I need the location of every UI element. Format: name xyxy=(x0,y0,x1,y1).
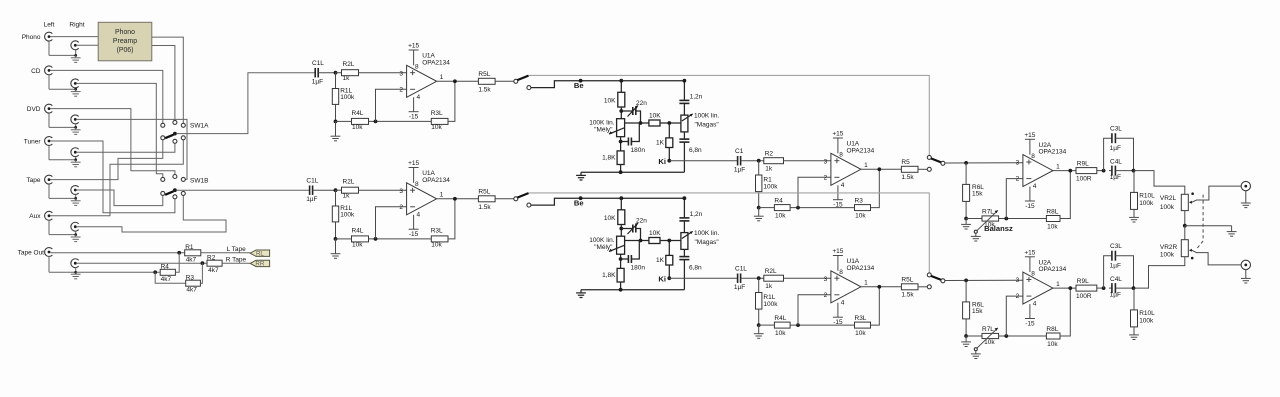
svg-text:-15: -15 xyxy=(833,319,843,326)
ground R6L upper (left ch) xyxy=(965,219,967,225)
wire Tape R to SW1B xyxy=(77,190,163,206)
svg-text:1.5k: 1.5k xyxy=(901,174,914,181)
ground tone lower (right ch) xyxy=(580,290,582,293)
svg-text:Be: Be xyxy=(574,198,584,207)
svg-text:6,8n: 6,8n xyxy=(689,265,702,272)
svg-text:Phono: Phono xyxy=(115,29,135,36)
balance pot R7L upper (left ch) xyxy=(966,218,982,220)
svg-text:1µF: 1µF xyxy=(1110,174,1121,181)
selector switch SW1B xyxy=(161,177,165,181)
resistor R10L 100k lower (right ch) xyxy=(1133,288,1135,310)
capacitor C3L 1uF lower (right ch) xyxy=(1104,256,1112,288)
resistor R9L 100R lower (right ch) xyxy=(1076,285,1097,291)
wire CD L to SW1A xyxy=(51,70,163,123)
svg-text:DVD: DVD xyxy=(27,106,41,113)
wire to Be node upper (left ch) xyxy=(531,81,686,88)
resistor R5L upper (left ch) xyxy=(478,78,495,84)
svg-text:VR2R: VR2R xyxy=(1160,244,1178,251)
svg-text:1,2n: 1,2n xyxy=(690,94,703,101)
svg-text:R4L: R4L xyxy=(352,227,364,234)
svg-text:R2L: R2L xyxy=(343,179,355,186)
svg-text:C1L: C1L xyxy=(306,178,318,185)
svg-text:10k: 10k xyxy=(352,241,363,248)
phono preamp box P06 xyxy=(98,22,152,61)
output node U2A upper (left ch) xyxy=(1053,170,1076,172)
svg-text:4k7: 4k7 xyxy=(186,256,197,263)
svg-text:1µF: 1µF xyxy=(1110,262,1121,269)
svg-text:1µF: 1µF xyxy=(312,79,323,86)
capacitor 180n lower (right ch) xyxy=(620,254,622,268)
wire preamp out 1 to SW1A contact xyxy=(152,37,184,123)
resistor R2L upper (left ch) xyxy=(342,70,359,76)
svg-text:1: 1 xyxy=(1056,281,1060,288)
svg-text:"Magas": "Magas" xyxy=(695,122,720,129)
svg-text:4: 4 xyxy=(1033,183,1037,190)
output node lower (right ch) xyxy=(437,198,479,200)
svg-text:6,8n: 6,8n xyxy=(689,147,702,154)
wire switch2 to U2A upper (left ch) xyxy=(945,162,1023,164)
selector switch SW1A xyxy=(161,123,165,127)
svg-text:-15: -15 xyxy=(1025,203,1035,210)
RCA jack Aux right xyxy=(71,222,79,231)
ground Aux inputs xyxy=(48,220,50,234)
svg-text:1.5k: 1.5k xyxy=(901,292,914,299)
ground R7L wiper lower (right ch) xyxy=(975,351,977,354)
wire Phono L to preamp xyxy=(51,36,99,38)
svg-text:OPA2134: OPA2134 xyxy=(1039,266,1067,273)
svg-text:100K lin.: 100K lin. xyxy=(694,113,719,120)
svg-text:R2L: R2L xyxy=(765,268,777,275)
ground R1L lower (right ch) xyxy=(335,239,337,254)
svg-text:2: 2 xyxy=(824,174,828,181)
svg-text:1K: 1K xyxy=(656,140,665,147)
svg-text:R5L: R5L xyxy=(478,189,490,196)
potentiometer 100K lin Magas upper (left ch) xyxy=(681,115,688,132)
gang dot VR2R xyxy=(1191,257,1194,260)
RCA jack Tape right xyxy=(71,186,79,195)
svg-text:4: 4 xyxy=(841,299,845,306)
node Ki upper (left ch) xyxy=(667,159,671,163)
svg-text:Balansz: Balansz xyxy=(984,224,1013,233)
svg-text:10k: 10k xyxy=(855,213,866,220)
svg-text:C1L: C1L xyxy=(735,265,747,272)
svg-text:+15: +15 xyxy=(408,43,419,50)
op-amp U1A stage2 upper (left ch) xyxy=(831,153,861,185)
svg-text:4k7: 4k7 xyxy=(161,276,172,283)
feedback node stage2 lower (right ch) xyxy=(790,324,854,326)
svg-text:+15: +15 xyxy=(1024,132,1035,139)
ground R6L lower (right ch) xyxy=(965,336,967,342)
svg-text:10k: 10k xyxy=(431,241,442,248)
feedback node upper (left ch) xyxy=(369,120,432,122)
svg-text:10k: 10k xyxy=(431,124,442,131)
svg-text:180n: 180n xyxy=(631,265,646,272)
svg-text:1k: 1k xyxy=(343,75,351,82)
wire DVD R to SW1B xyxy=(77,119,187,179)
svg-text:1k: 1k xyxy=(343,192,351,199)
svg-text:1.5k: 1.5k xyxy=(478,86,491,93)
svg-text:8: 8 xyxy=(1031,153,1035,160)
svg-text:1µF: 1µF xyxy=(734,284,745,291)
capacitor C4L 1uF upper (left ch) xyxy=(1109,170,1112,172)
svg-text:C1: C1 xyxy=(735,148,744,155)
svg-text:L Tape: L Tape xyxy=(227,246,247,253)
svg-text:SW1B: SW1B xyxy=(190,177,208,184)
resistor 1K upper (left ch) xyxy=(668,123,670,138)
potentiometer 100K lin Magas lower (right ch) xyxy=(681,233,688,250)
svg-text:100k: 100k xyxy=(1139,200,1154,207)
resistor R4 10k upper (left ch) xyxy=(759,207,775,209)
capacitor 180n upper (left ch) xyxy=(620,137,622,151)
resistor R1L 100k lower (right ch) xyxy=(758,278,760,292)
resistor R3L lower (right ch) xyxy=(431,236,448,242)
svg-text:1,2n: 1,2n xyxy=(690,211,703,218)
svg-text:CD: CD xyxy=(31,68,41,75)
svg-text:Phono: Phono xyxy=(22,34,41,41)
svg-text:10k: 10k xyxy=(855,330,866,337)
svg-text:R4L: R4L xyxy=(774,315,786,322)
svg-text:SW1A: SW1A xyxy=(190,123,209,130)
svg-text:(P06): (P06) xyxy=(117,47,134,54)
svg-text:R5L: R5L xyxy=(478,71,490,78)
wiper rail tone upper (left ch) xyxy=(625,122,649,124)
svg-text:Tape: Tape xyxy=(26,177,40,184)
svg-text:3: 3 xyxy=(1016,160,1020,167)
svg-text:100k: 100k xyxy=(1139,318,1154,325)
svg-text:1: 1 xyxy=(440,192,444,199)
svg-text:3: 3 xyxy=(824,276,828,283)
svg-text:Preamp: Preamp xyxy=(113,38,137,45)
svg-text:3: 3 xyxy=(399,70,403,77)
tone defeat switch pole upper (left ch) xyxy=(514,79,518,83)
node Ki lower (right ch) xyxy=(667,276,671,280)
svg-text:4: 4 xyxy=(417,211,421,218)
feedback node stage2 upper (left ch) xyxy=(790,207,854,209)
svg-text:100K lin.: 100K lin. xyxy=(694,230,719,237)
wire SW1B pole to C1L lower xyxy=(177,189,310,191)
tag RL xyxy=(250,250,269,256)
wire Aux L to SW1A xyxy=(51,140,184,216)
ground R1L upper (left ch) xyxy=(335,121,337,136)
svg-text:OPA2134: OPA2134 xyxy=(422,177,450,184)
resistor R2 1k upper (left ch) xyxy=(764,158,784,164)
node Be upper (left ch) xyxy=(579,79,583,83)
resistor R3L 10k lower (right ch) xyxy=(855,322,871,328)
wiper rail tone lower (right ch) xyxy=(625,240,649,242)
ground CD inputs xyxy=(48,75,50,89)
resistor 1,8K lower (right ch) xyxy=(617,268,624,282)
svg-text:C4L: C4L xyxy=(1110,276,1122,283)
wire VR2L bottom to ground xyxy=(1184,211,1186,226)
svg-text:1,8K: 1,8K xyxy=(602,272,616,279)
resistor R5L lower (right ch) xyxy=(478,196,495,202)
capacitor 22n lower (right ch) xyxy=(621,228,633,230)
svg-text:C4L: C4L xyxy=(1110,158,1122,165)
svg-text:Ki: Ki xyxy=(658,274,666,283)
svg-text:100k: 100k xyxy=(340,94,355,101)
svg-text:100R: 100R xyxy=(1076,175,1092,182)
wire Tuner L to SW1B xyxy=(51,141,175,213)
resistor R8L 10k upper (left ch) xyxy=(1046,216,1060,222)
wire Aux R to SW1B xyxy=(77,195,226,232)
svg-text:4k7: 4k7 xyxy=(186,287,197,294)
svg-text:1k: 1k xyxy=(765,165,773,172)
svg-text:1: 1 xyxy=(864,162,868,169)
resistor R9L 100R upper (left ch) xyxy=(1076,168,1097,174)
balance pot R7L lower (right ch) xyxy=(966,335,982,337)
svg-text:R5L: R5L xyxy=(901,277,913,284)
RCA jack Phono right xyxy=(71,41,79,50)
svg-text:1µF: 1µF xyxy=(306,196,317,203)
capacitor 6,8n upper (left ch) xyxy=(683,132,685,139)
op-amp U1A buffer upper (left ch) xyxy=(407,65,437,97)
node Be lower (right ch) xyxy=(579,196,583,200)
resistor 10K tone lower (right ch) xyxy=(620,198,622,210)
svg-text:2: 2 xyxy=(1016,176,1020,183)
svg-text:1: 1 xyxy=(1056,163,1060,170)
op-amp U2A upper (left ch) xyxy=(1023,155,1053,187)
resistor 10K series lower (right ch) xyxy=(649,238,660,244)
svg-text:2: 2 xyxy=(399,204,403,211)
svg-text:RR: RR xyxy=(255,261,264,268)
svg-text:10k: 10k xyxy=(1047,341,1058,348)
svg-text:8: 8 xyxy=(839,269,843,276)
svg-text:+15: +15 xyxy=(832,248,843,255)
ground R1L lower (right ch) xyxy=(758,325,760,334)
svg-text:1: 1 xyxy=(864,280,868,287)
resistor R4L lower (right ch) xyxy=(352,236,369,242)
svg-text:8: 8 xyxy=(1031,271,1035,278)
op-amp U2A lower (right ch) xyxy=(1023,272,1053,304)
capacitor 6,8n lower (right ch) xyxy=(683,249,685,256)
svg-text:100R: 100R xyxy=(1076,293,1092,300)
svg-text:R3L: R3L xyxy=(431,110,443,117)
svg-text:"Magas": "Magas" xyxy=(695,239,720,246)
svg-text:10K: 10K xyxy=(604,215,616,222)
op-amp U1A stage2 lower (right ch) xyxy=(831,271,861,303)
svg-text:R2: R2 xyxy=(765,151,774,158)
svg-text:R10L: R10L xyxy=(1139,310,1155,317)
svg-text:4k7: 4k7 xyxy=(208,267,219,274)
svg-text:OPA2134: OPA2134 xyxy=(422,59,450,66)
svg-text:OPA2134: OPA2134 xyxy=(847,265,875,272)
wire Tuner R to SW1A xyxy=(77,143,175,152)
svg-text:R3: R3 xyxy=(186,274,195,281)
ground R7L wiper upper (left ch) xyxy=(975,233,977,236)
resistor 10K series upper (left ch) xyxy=(649,120,660,126)
svg-text:4: 4 xyxy=(417,94,421,101)
svg-text:4: 4 xyxy=(841,182,845,189)
wire Tape Out R line xyxy=(77,262,207,264)
capacitor C1L 1uF lower (right ch) xyxy=(737,273,739,283)
resistor R3 10k upper (left ch) xyxy=(855,205,871,211)
ground Phono inputs xyxy=(48,41,50,55)
ground R10L lower (right ch) xyxy=(1133,327,1135,335)
svg-text:10K: 10K xyxy=(604,98,616,105)
capacitor C4L 1uF lower (right ch) xyxy=(1109,287,1112,289)
wire DVD L to SW1B xyxy=(51,109,175,175)
resistor R4L upper (left ch) xyxy=(352,118,369,124)
RCA jack CD left xyxy=(45,66,53,75)
ground rail tone upper (left ch) xyxy=(581,171,684,173)
ground output right xyxy=(1245,269,1247,278)
resistor 10K tone upper (left ch) xyxy=(620,81,622,93)
tone defeat switch 2 upper (left ch) xyxy=(927,155,931,159)
RCA jack Tape left xyxy=(45,175,53,184)
RCA jack Phono left xyxy=(45,32,53,41)
svg-text:10k: 10k xyxy=(352,124,363,131)
svg-text:10k: 10k xyxy=(775,213,786,220)
svg-text:R10L: R10L xyxy=(1139,193,1155,200)
svg-text:Right: Right xyxy=(69,21,84,28)
svg-text:R8L: R8L xyxy=(1046,326,1058,333)
svg-text:Be: Be xyxy=(574,81,584,90)
svg-text:R1: R1 xyxy=(763,176,772,183)
svg-text:10k: 10k xyxy=(775,330,786,337)
svg-text:R1: R1 xyxy=(185,244,194,251)
wire preamp out 2 to SW1A contact xyxy=(152,46,175,121)
resistor R4 4k7 xyxy=(160,269,175,275)
resistor R3 4k7 xyxy=(186,280,201,286)
RCA jack CD right xyxy=(71,79,79,88)
wire CD R to SW1B xyxy=(77,83,163,177)
svg-text:10K: 10K xyxy=(649,113,661,120)
svg-text:8: 8 xyxy=(415,64,419,71)
svg-text:100k: 100k xyxy=(340,212,355,219)
tag RR xyxy=(250,260,269,266)
svg-text:R2: R2 xyxy=(207,254,216,261)
ground R1 upper (left ch) xyxy=(758,208,760,217)
svg-text:100k: 100k xyxy=(1160,204,1175,211)
svg-text:2: 2 xyxy=(399,86,403,93)
svg-text:1µF: 1µF xyxy=(734,167,745,174)
RCA jack DVD left xyxy=(45,104,53,113)
svg-text:+15: +15 xyxy=(832,131,843,138)
svg-text:R8L: R8L xyxy=(1046,208,1058,215)
wire Tape L to SW1A xyxy=(51,140,163,180)
RCA jack Tuner right xyxy=(71,148,79,157)
wire to Be node lower (right ch) xyxy=(531,198,686,205)
svg-text:15k: 15k xyxy=(972,191,983,198)
svg-text:1µF: 1µF xyxy=(1110,145,1121,152)
svg-text:3: 3 xyxy=(824,158,828,165)
svg-text:22n: 22n xyxy=(636,100,647,107)
svg-text:R4: R4 xyxy=(774,197,783,204)
output node U2A lower (right ch) xyxy=(1053,287,1076,289)
svg-text:VR2L: VR2L xyxy=(1160,195,1177,202)
resistor R1L upper (left ch) xyxy=(335,73,337,89)
svg-text:1.5k: 1.5k xyxy=(478,204,491,211)
potentiometer 100K lin Mely lower (right ch) xyxy=(617,236,625,254)
tone defeat switch 2 lower (right ch) xyxy=(927,273,931,277)
svg-text:RL: RL xyxy=(256,250,264,257)
resistor R6L 15k upper (left ch) xyxy=(965,163,967,185)
wire R2 to tag R Tape xyxy=(222,262,250,264)
svg-text:C1L: C1L xyxy=(312,60,324,67)
svg-text:Aux: Aux xyxy=(29,213,41,220)
ground volume pots xyxy=(1231,226,1233,232)
svg-text:1µF: 1µF xyxy=(1110,292,1121,299)
resistor R5L 1.5k lower (right ch) xyxy=(901,284,918,290)
svg-text:Ki: Ki xyxy=(658,157,666,166)
svg-text:R2L: R2L xyxy=(343,61,355,68)
svg-text:8: 8 xyxy=(415,181,419,188)
svg-text:R4L: R4L xyxy=(352,110,364,117)
svg-text:Tape Out: Tape Out xyxy=(18,249,45,256)
svg-text:R9L: R9L xyxy=(1077,160,1089,167)
capacitor C1 1uF upper (left ch) xyxy=(737,156,739,166)
capacitor 1,2n lower (right ch) xyxy=(683,198,685,218)
svg-text:1k: 1k xyxy=(765,283,773,290)
RCA jack DVD right xyxy=(71,115,79,124)
svg-text:R3L: R3L xyxy=(431,227,443,234)
volume pot VR2R 100k xyxy=(1184,226,1186,240)
svg-text:10k: 10k xyxy=(1047,224,1058,231)
ground rail tone lower (right ch) xyxy=(581,289,684,291)
resistor R5 1.5k upper (left ch) xyxy=(901,166,918,172)
svg-text:R9L: R9L xyxy=(1077,278,1089,285)
svg-text:-15: -15 xyxy=(833,202,843,209)
wire Ki to C1 upper (left ch) xyxy=(669,160,737,162)
capacitor C1L upper (left ch) xyxy=(314,68,316,78)
svg-text:100K lin.: 100K lin. xyxy=(589,120,614,127)
svg-text:R1L: R1L xyxy=(763,294,775,301)
svg-text:+15: +15 xyxy=(1024,250,1035,257)
ground DVD inputs xyxy=(48,113,50,127)
svg-text:-15: -15 xyxy=(409,231,419,238)
ground Tuner inputs xyxy=(48,146,50,160)
svg-text:2: 2 xyxy=(824,292,828,299)
resistor R1L lower (right ch) xyxy=(335,190,337,206)
svg-text:15k: 15k xyxy=(972,308,983,315)
svg-text:22n: 22n xyxy=(636,218,647,225)
resistor R4L 10k lower (right ch) xyxy=(759,324,775,326)
tone defeat switch pole lower (right ch) xyxy=(514,197,518,201)
svg-text:Left: Left xyxy=(44,21,55,28)
svg-text:R7L: R7L xyxy=(982,326,994,333)
gang dashed link xyxy=(1202,195,1204,241)
ground Tape inputs xyxy=(48,184,50,198)
volume pot VR2L 100k xyxy=(1181,194,1188,210)
svg-text:R4: R4 xyxy=(161,264,170,271)
svg-text:100k: 100k xyxy=(763,301,778,308)
svg-text:10K: 10K xyxy=(649,230,661,237)
resistor R3L upper (left ch) xyxy=(431,118,448,124)
op-amp U1A buffer lower (right ch) xyxy=(407,183,437,215)
capacitor 1,2n upper (left ch) xyxy=(683,81,685,101)
output node stage2 upper (left ch) xyxy=(861,168,902,170)
resistor 1,8K upper (left ch) xyxy=(617,151,624,165)
svg-text:3: 3 xyxy=(399,188,403,195)
wire R3 branch xyxy=(155,272,186,283)
wire R4 node xyxy=(76,271,161,273)
svg-text:Tuner: Tuner xyxy=(24,138,42,145)
svg-text:2: 2 xyxy=(1016,293,1020,300)
feedback node lower (right ch) xyxy=(369,238,432,240)
resistor R8L 10k lower (right ch) xyxy=(1046,333,1060,339)
svg-text:100K lin.: 100K lin. xyxy=(589,237,614,244)
svg-text:R7L: R7L xyxy=(982,208,994,215)
capacitor C1L lower (right ch) xyxy=(309,185,311,195)
resistor R2 4k7 xyxy=(207,260,222,266)
svg-text:R3L: R3L xyxy=(855,315,867,322)
resistor R2L 1k lower (right ch) xyxy=(764,275,784,281)
RCA jack Tape Out left xyxy=(45,248,53,257)
svg-text:1K: 1K xyxy=(656,257,665,264)
wire R2L to pin3 lower (right ch) xyxy=(359,189,407,191)
svg-text:100k: 100k xyxy=(1160,251,1175,258)
wire bypass rail lower (right ch) xyxy=(529,193,930,273)
